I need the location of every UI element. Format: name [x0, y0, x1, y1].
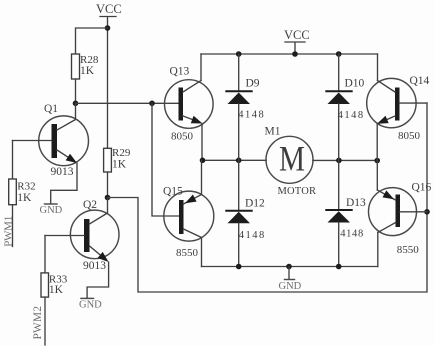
svg-text:4148: 4148 — [338, 110, 364, 121]
wire R29 bottom — [107, 172, 109, 198]
wire R32 bottom / PWM1 input — [12, 205, 14, 247]
wire top rail — [201, 53, 378, 55]
wire Q15 base drop — [152, 103, 179, 216]
wire Q2 emitter to ground — [87, 262, 109, 298]
wire Q1 base — [13, 140, 52, 142]
node D12 bottom — [236, 264, 242, 270]
ground GND (Q2) — [79, 298, 102, 310]
resistor R33 — [41, 273, 68, 297]
ground GND (bridge) — [279, 267, 302, 293]
svg-text:D10: D10 — [345, 78, 365, 90]
node D9 top — [236, 51, 242, 57]
svg-text:4148: 4148 — [340, 229, 363, 240]
wire bottom rail — [202, 266, 378, 268]
svg-text:D12: D12 — [245, 198, 265, 210]
wire Q1 emitter to ground — [51, 163, 77, 204]
svg-text:Q1: Q1 — [44, 103, 58, 115]
svg-text:8550: 8550 — [176, 247, 199, 259]
wire base bus to Q13 — [76, 102, 179, 104]
wire right bridge mid — [313, 159, 378, 161]
wire R33 bottom / PWM2 input — [44, 297, 46, 345]
power VCC (left) — [96, 2, 122, 28]
node D13 bottom — [336, 264, 342, 270]
diode D12 — [226, 160, 265, 266]
node left leg mid — [200, 158, 206, 164]
wire VCC left rail down to R29 — [107, 28, 109, 148]
svg-text:D13: D13 — [346, 197, 366, 209]
node Q2 collector / right base wire — [105, 195, 111, 201]
ground GND (Q1) — [40, 204, 63, 216]
svg-text:8550: 8550 — [397, 244, 420, 256]
svg-text:1K: 1K — [80, 65, 95, 77]
svg-text:M1: M1 — [265, 125, 281, 137]
node D10 top — [336, 51, 342, 57]
node D9/D12 mid — [236, 158, 242, 164]
svg-text:4148: 4148 — [238, 110, 263, 121]
wire Q13 collector — [200, 54, 202, 81]
diode D9 — [226, 54, 263, 160]
diode D13 — [326, 160, 366, 266]
node Q1 collector / base bus — [73, 101, 79, 107]
motor M1 — [265, 125, 317, 197]
svg-text:D9: D9 — [246, 78, 260, 90]
wire R28 branch — [76, 28, 108, 54]
wire Q15 emitter — [201, 160, 203, 194]
node D10/D13 mid — [336, 158, 342, 164]
wire Q16 base — [400, 211, 427, 213]
wire R33 top — [44, 236, 46, 273]
svg-text:VCC: VCC — [284, 28, 310, 42]
svg-text:8050: 8050 — [398, 130, 421, 142]
node right leg mid — [374, 158, 380, 164]
wire Q2 collector node to Q14/Q16 bases — [108, 103, 428, 292]
svg-text:Q16: Q16 — [412, 182, 432, 194]
wire Q16 emitter — [376, 161, 378, 191]
diode D10 — [326, 54, 364, 160]
svg-text:Q14: Q14 — [410, 75, 430, 87]
svg-text:GND: GND — [279, 281, 302, 292]
svg-text:M: M — [279, 138, 305, 178]
svg-text:MOTOR: MOTOR — [278, 186, 317, 197]
svg-text:PWM1: PWM1 — [3, 216, 15, 247]
wire Q15 collector — [201, 238, 203, 267]
node GND tap — [286, 264, 292, 270]
transistor Q1 — [39, 103, 89, 178]
transistor Q15 — [163, 186, 214, 260]
wire R32 top — [12, 141, 14, 180]
transistor Q2 — [70, 198, 119, 273]
resistor R28 — [72, 54, 99, 79]
svg-text:1K: 1K — [17, 192, 32, 204]
wire Q14 collector — [377, 54, 379, 81]
svg-text:9013: 9013 — [83, 260, 106, 272]
wire left bridge mid — [202, 159, 266, 161]
svg-text:Q2: Q2 — [83, 199, 97, 211]
wire Q16 collector — [377, 233, 379, 267]
svg-text:R29: R29 — [112, 147, 131, 159]
node VCC tap — [292, 51, 298, 57]
transistor Q13 — [165, 66, 214, 143]
transistor Q14 — [367, 75, 430, 142]
svg-text:1K: 1K — [112, 159, 127, 171]
wire Q14 base — [400, 102, 428, 104]
svg-text:Q13: Q13 — [170, 66, 190, 78]
node junction at VCC/R28 branch — [105, 25, 111, 31]
svg-text:GND: GND — [40, 205, 63, 216]
wire Q14 emitter — [376, 124, 378, 161]
resistor R32 — [9, 179, 36, 205]
transistor Q16 — [369, 182, 432, 257]
power VCC (bridge) — [284, 28, 310, 54]
svg-text:GND: GND — [79, 300, 102, 311]
wire Q2 base — [45, 235, 84, 237]
wire R28 bottom — [75, 79, 77, 103]
svg-text:R32: R32 — [17, 181, 35, 193]
svg-text:4148: 4148 — [239, 230, 265, 241]
svg-text:Q15: Q15 — [163, 186, 183, 198]
resistor R29 — [104, 147, 131, 172]
svg-text:9013: 9013 — [51, 166, 74, 178]
svg-text:8050: 8050 — [171, 131, 194, 143]
svg-text:1K: 1K — [49, 284, 64, 296]
node Q16 base tap — [424, 209, 430, 215]
wire Q13 emitter — [201, 124, 203, 161]
svg-text:PWM2: PWM2 — [32, 306, 44, 340]
node Q13/Q15 base tie — [149, 101, 155, 107]
svg-text:VCC: VCC — [96, 2, 122, 16]
